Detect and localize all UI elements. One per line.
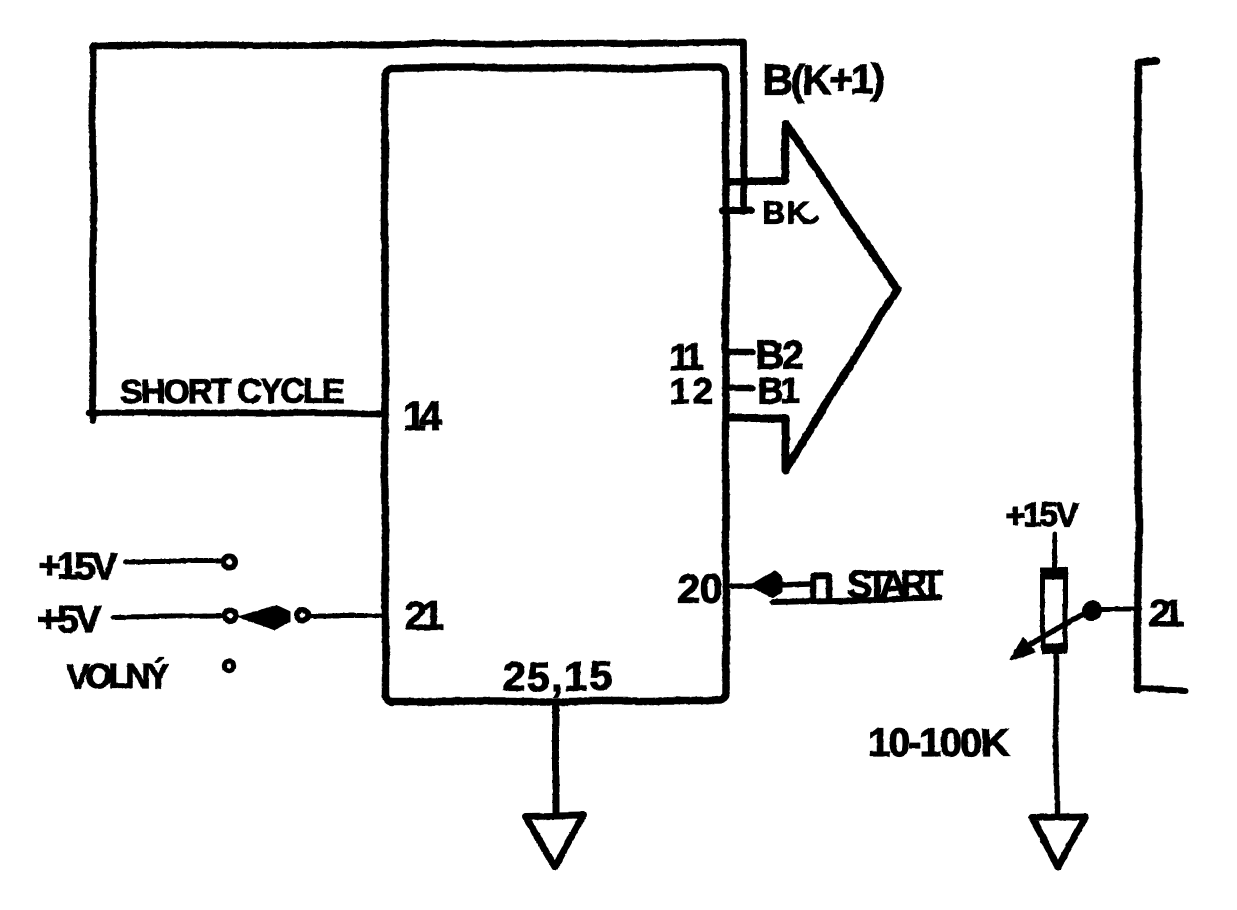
svg-text:25,15: 25,15 <box>503 653 612 699</box>
svg-text:+15V: +15V <box>1005 497 1079 535</box>
svg-text:21: 21 <box>405 593 445 639</box>
svg-text:SHORT CYCLE: SHORT CYCLE <box>120 373 344 411</box>
svg-text:VOLNÝ: VOLNÝ <box>67 658 169 696</box>
svg-text:21: 21 <box>1149 593 1184 636</box>
svg-text:20: 20 <box>677 566 722 612</box>
svg-text:BK: BK <box>763 196 810 231</box>
svg-text:B(K+1): B(K+1) <box>762 56 886 103</box>
svg-text:+15V: +15V <box>39 546 118 588</box>
svg-text:14: 14 <box>403 393 442 439</box>
svg-text:+5V: +5V <box>38 599 102 641</box>
svg-text:10-100K: 10-100K <box>867 721 1010 765</box>
svg-text:B1: B1 <box>757 370 801 411</box>
svg-text:START: START <box>847 564 944 606</box>
